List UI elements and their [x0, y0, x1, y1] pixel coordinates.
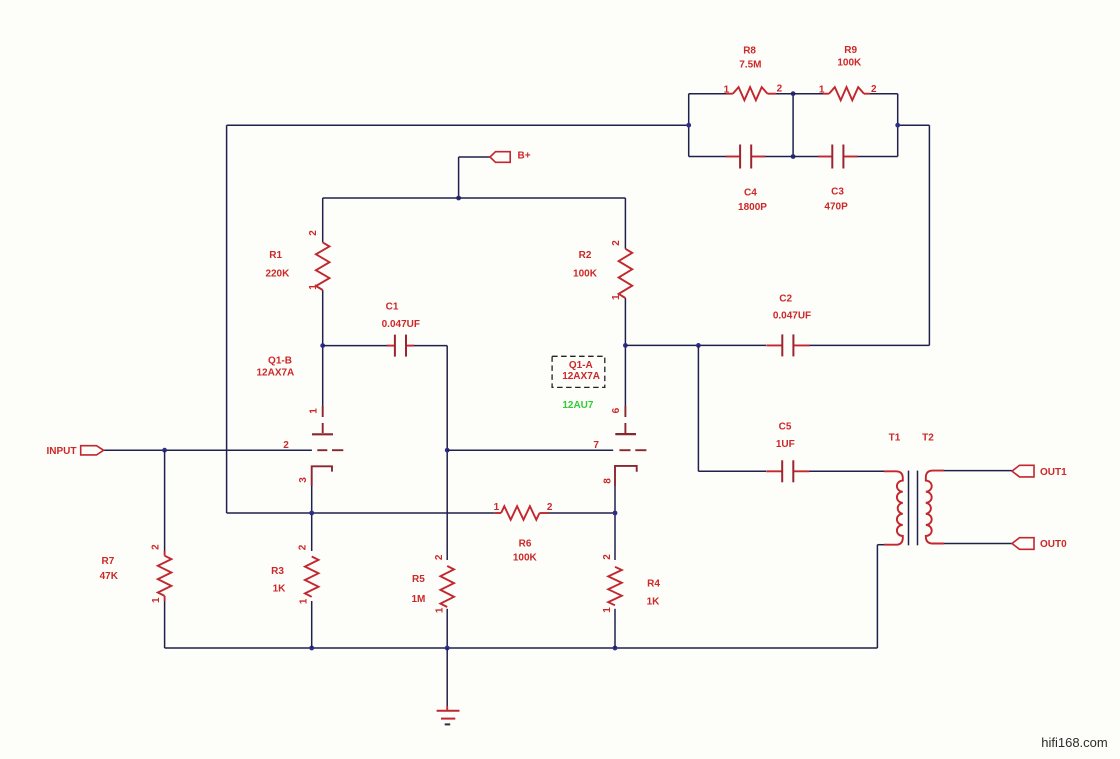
svg-text:220K: 220K	[265, 268, 290, 279]
transformer T1 primary winding	[884, 471, 903, 544]
junction: C5 branch on C2 wire	[696, 343, 701, 348]
wire: B+ stem vertical to supply rail	[458, 157, 460, 198]
port INPUT	[81, 446, 104, 455]
svg-text:7.5M: 7.5M	[739, 59, 761, 70]
capacitor C3 470P	[818, 156, 832, 158]
svg-text:7: 7	[593, 440, 599, 451]
wire: C1 right wire to middle vertical	[412, 345, 448, 347]
resistor R9 100K	[829, 87, 864, 100]
wire: B+ stem horizontal	[459, 156, 490, 158]
wire: R3 bottom lead	[311, 601, 313, 648]
svg-text:1: 1	[151, 597, 162, 603]
resistor R1 220K	[316, 242, 330, 290]
svg-text:2: 2	[871, 84, 877, 95]
svg-text:1UF: 1UF	[776, 439, 795, 450]
svg-text:T2: T2	[922, 433, 934, 444]
wire: C3 right wire	[856, 156, 898, 158]
svg-text:C2: C2	[779, 293, 792, 304]
svg-text:1: 1	[819, 84, 825, 95]
wire: Q1-A cathode to R4	[614, 486, 616, 560]
svg-text:0.047UF: 0.047UF	[382, 319, 420, 330]
junction at Q1-A grid wire	[445, 448, 450, 453]
svg-text:12AU7: 12AU7	[562, 400, 594, 411]
wire: R7 top lead	[164, 450, 166, 551]
wire: middle vertical (C1 to R5 top)	[446, 346, 448, 560]
svg-text:0.047UF: 0.047UF	[773, 311, 811, 322]
svg-text:2: 2	[151, 544, 162, 550]
svg-text:2: 2	[602, 554, 613, 560]
junction: network right node	[895, 123, 900, 128]
svg-text:470P: 470P	[824, 201, 848, 212]
svg-text:C1: C1	[386, 302, 399, 313]
capacitor C5 1UF	[766, 470, 782, 472]
triode Q1-A plate lead (dashed)	[624, 406, 626, 417]
svg-text:47K: 47K	[100, 571, 119, 582]
svg-text:12AX7A: 12AX7A	[562, 371, 600, 382]
junction: R4 bottom on ground bus	[613, 646, 618, 651]
junction at R7 top	[162, 448, 167, 453]
svg-text:R2: R2	[579, 250, 592, 261]
capacitor C2 0.047UF	[766, 344, 782, 346]
wire: C5 right wire to T1 primary	[809, 470, 885, 472]
svg-text:1: 1	[611, 294, 622, 300]
wire: Q1-B cathode to R3 top	[311, 486, 313, 551]
svg-text:R5: R5	[412, 574, 425, 585]
svg-text:B+: B+	[518, 151, 531, 162]
svg-text:2: 2	[611, 240, 622, 246]
triode Q1-A plate bar	[615, 433, 636, 435]
wire: R9 right wire	[870, 93, 898, 95]
svg-text:1: 1	[308, 284, 319, 290]
wire: cathode bus left segment (to R6 pin 1)	[227, 512, 495, 514]
wire: C4 left wire	[689, 156, 727, 158]
wire: R7 bottom lead	[164, 601, 166, 648]
wire: T1 primary bottom vertical	[876, 545, 878, 648]
svg-text:2: 2	[283, 440, 289, 451]
wire: C4-C3 middle wire	[764, 156, 819, 158]
resistor R8 7.5M	[733, 87, 768, 100]
wire: R2 top lead	[624, 198, 626, 249]
resistor R2 100K	[619, 249, 633, 298]
port OUT1	[1012, 465, 1034, 477]
svg-text:1: 1	[434, 607, 445, 613]
node: network middle vertical	[792, 94, 794, 157]
wire: cathode bus right segment (R6 pin 2 to Q1-A cathode)	[549, 512, 616, 514]
wire: R8 left lead wire	[689, 93, 727, 95]
ground stem	[446, 648, 448, 706]
wire: R2 bottom lead to Q1-A plate	[624, 298, 626, 406]
svg-text:2: 2	[308, 230, 319, 236]
svg-text:R6: R6	[519, 539, 532, 550]
port B+	[490, 152, 510, 163]
svg-text:8: 8	[603, 478, 614, 484]
svg-text:C3: C3	[831, 187, 844, 198]
wire: grid wire to Q1-A	[447, 449, 613, 451]
wire: T2 secondary top to OUT1	[940, 470, 1012, 472]
wire: R1 top lead	[322, 198, 324, 242]
svg-text:100K: 100K	[513, 553, 538, 564]
svg-text:6: 6	[611, 407, 622, 413]
svg-text:INPUT: INPUT	[47, 446, 77, 457]
svg-text:hifi168.com: hifi168.com	[1041, 735, 1107, 750]
svg-text:Q1-B: Q1-B	[268, 356, 292, 367]
svg-text:OUT1: OUT1	[1040, 467, 1067, 478]
junction: R3 bottom on ground bus	[309, 646, 314, 651]
node: network right vertical	[897, 94, 899, 157]
transformer T2 secondary winding	[926, 471, 944, 544]
wire: ground bus	[165, 647, 878, 649]
junction: Q1-A cathode / R4 / R6 node	[613, 511, 618, 516]
junction: Q1-B cathode / R3 / bus node	[309, 511, 314, 516]
wire: R1 bottom lead to Q1-B plate	[322, 290, 324, 406]
svg-text:R7: R7	[102, 556, 115, 567]
triode Q1-B plate lead (dashed)	[322, 406, 324, 417]
svg-text:3: 3	[298, 477, 309, 483]
resistor R4 1K	[608, 567, 622, 606]
svg-text:100K: 100K	[573, 269, 598, 280]
svg-text:C4: C4	[744, 187, 757, 198]
wire: T1 primary bottom to ground bus corner	[877, 544, 886, 546]
svg-text:R4: R4	[647, 579, 660, 590]
resistor R7 47K	[158, 556, 172, 596]
svg-text:1: 1	[724, 84, 730, 95]
triode Q1-B cathode	[312, 466, 332, 486]
dashed selection box around Q1-A label	[552, 356, 605, 387]
triode Q1-B plate bar	[312, 433, 333, 435]
wire: R5 bottom lead to ground bus	[446, 609, 448, 648]
wire: top feedback rail from left vertical to R8/C4 network	[227, 124, 689, 126]
resistor R3 1K	[305, 557, 319, 597]
wire: INPUT to Q1-B grid	[104, 449, 312, 451]
port OUT0	[1012, 538, 1034, 550]
wire: C2 right wire to right vertical	[809, 344, 929, 346]
svg-text:1K: 1K	[647, 596, 661, 607]
svg-text:Q1-A: Q1-A	[569, 360, 593, 371]
wire: C2 left wire	[625, 344, 766, 346]
triode Q1-A grid dashes	[619, 449, 630, 451]
svg-text:1: 1	[602, 607, 613, 613]
svg-text:1: 1	[308, 408, 319, 414]
capacitor C4 1800P	[726, 156, 740, 158]
junction: network middle top	[791, 91, 796, 96]
svg-text:12AX7A: 12AX7A	[256, 367, 294, 378]
svg-text:2: 2	[777, 84, 783, 95]
junction: network middle bottom	[791, 154, 796, 159]
svg-text:R9: R9	[844, 45, 857, 56]
svg-text:1800P: 1800P	[738, 202, 767, 213]
svg-text:2: 2	[434, 554, 445, 560]
wire: T2 secondary bottom to OUT0	[940, 543, 1012, 545]
junction at C1 left on plate line	[320, 343, 325, 348]
capacitor C1 0.047UF	[387, 345, 395, 347]
junction: feedback wire at network left node	[686, 123, 691, 128]
svg-text:C5: C5	[779, 422, 792, 433]
triode Q1-A cathode	[615, 466, 637, 486]
junction: C2 left on Q1-A plate line	[623, 343, 628, 348]
wire: R8-R9 middle wire	[776, 93, 793, 95]
transformer core lines	[908, 471, 910, 546]
resistor R5 1M	[440, 566, 454, 607]
svg-text:OUT0: OUT0	[1040, 539, 1067, 550]
svg-text:T1: T1	[889, 433, 901, 444]
triode Q1-B grid dashes	[317, 449, 327, 451]
junction on supply rail at B+ stem	[456, 196, 461, 201]
wire: C5 branch vertical	[697, 345, 699, 471]
wire: C1 left wire	[323, 345, 388, 347]
wire: R4 bottom lead	[614, 609, 616, 648]
svg-text:1K: 1K	[273, 584, 287, 595]
wire: R9 left wire	[793, 93, 823, 95]
junction: ground stem on ground bus	[445, 646, 450, 651]
wire: C5 left wire	[698, 470, 766, 472]
node: network left vertical	[688, 94, 690, 157]
ground symbol	[446, 706, 448, 711]
svg-text:1: 1	[298, 598, 309, 604]
wire: right vertical from network output down to C2	[928, 125, 930, 345]
wire: left feedback vertical down to cathode bus	[226, 125, 228, 513]
svg-text:1M: 1M	[411, 594, 425, 605]
svg-text:2: 2	[298, 544, 309, 550]
svg-text:1: 1	[494, 502, 500, 513]
wire: network output to right vertical	[898, 124, 930, 126]
svg-text:R3: R3	[271, 566, 284, 577]
svg-text:100K: 100K	[837, 57, 862, 68]
svg-text:R8: R8	[743, 46, 756, 57]
resistor R6 100K	[501, 506, 539, 520]
svg-text:2: 2	[547, 502, 553, 513]
wire: supply rail R1 top to R2 top	[323, 197, 626, 199]
svg-text:R1: R1	[269, 250, 282, 261]
